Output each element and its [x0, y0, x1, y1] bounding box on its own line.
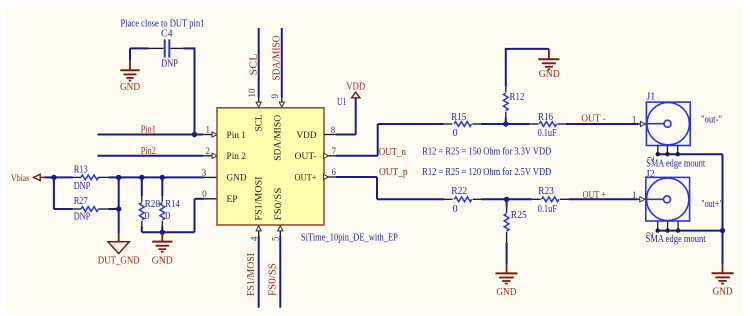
net label OUT +	[583, 190, 607, 201]
ground DUT_GND triangle symbol	[108, 242, 129, 254]
pin number 2 rotated (J2)	[645, 232, 655, 237]
pin name SDA/MISO rotated	[274, 115, 284, 161]
connector J1 ground pins	[656, 146, 680, 157]
label DNP (R13)	[74, 181, 91, 192]
wire Pin1 net horizontal	[98, 134, 204, 136]
capacitor C4 plates	[165, 39, 170, 57]
label DUT_GND	[98, 256, 140, 267]
label R28	[145, 199, 161, 210]
junction R12 bottom	[503, 121, 508, 126]
wire VDD net: pin8 to power port	[336, 98, 356, 135]
svg-text:SMA edge mount: SMA edge mount	[646, 159, 705, 170]
label GND bottom-right	[713, 287, 733, 298]
wire Vbias to junction	[44, 176, 54, 178]
svg-text:VDD: VDD	[297, 131, 317, 141]
svg-text:SMA edge mount: SMA edge mount	[646, 234, 706, 245]
wire R14 column	[161, 177, 163, 232]
pin number 10 rotated	[247, 88, 257, 97]
svg-text:R12: R12	[510, 92, 525, 103]
label Vbias	[11, 174, 30, 184]
wire R22 to R25 junction to R23	[473, 198, 541, 200]
junction R27 row x118	[116, 206, 121, 211]
wire R16 to J1	[557, 123, 638, 125]
svg-text:10: 10	[247, 88, 257, 97]
svg-text:R13: R13	[74, 165, 88, 176]
pin name Pin 1	[227, 131, 247, 141]
value 0.1uF (R23)	[538, 204, 558, 215]
label C4	[161, 29, 173, 40]
label R25	[511, 210, 527, 221]
svg-text:"out-": "out-"	[701, 115, 722, 126]
svg-text:OUT_n: OUT_n	[379, 147, 406, 158]
wire to bottom-right GND	[722, 231, 724, 274]
pin number 3	[202, 168, 207, 178]
net label OUT -	[581, 114, 606, 125]
resistor R16 body	[539, 122, 556, 127]
resistor R15 body	[454, 122, 471, 127]
value 0 (R28)	[145, 211, 150, 222]
wire bottom rail R28/R14 to EP	[142, 199, 204, 232]
label J2	[646, 169, 655, 180]
label R16	[538, 112, 553, 123]
ground GND left symbol	[152, 232, 172, 252]
svg-text:8: 8	[331, 125, 336, 135]
resistor R23 body	[542, 197, 559, 202]
svg-text:2: 2	[205, 146, 210, 156]
label out- quoted	[701, 115, 722, 126]
svg-text:EP: EP	[227, 195, 238, 205]
resistor R14 body	[160, 203, 165, 220]
pin 9 stub with arrow	[279, 98, 284, 108]
pin 1 stub J1	[639, 121, 646, 126]
svg-text:1: 1	[632, 190, 637, 200]
pin number 4 rotated	[249, 236, 259, 241]
svg-text:OUT -: OUT -	[581, 114, 606, 125]
resistor R13 body	[81, 175, 98, 180]
label SMA edge mount (J1)	[646, 159, 705, 170]
comment R12 = R25 = 150 Ohm for 3.3V VDD	[422, 147, 551, 158]
svg-text:5: 5	[270, 236, 280, 241]
svg-text:FS1/MOSI: FS1/MOSI	[246, 253, 257, 296]
pin 6 stub with arrow	[323, 174, 336, 179]
svg-text:0.1uF: 0.1uF	[538, 204, 558, 215]
svg-text:9: 9	[270, 94, 280, 99]
net label SCL rotated	[249, 54, 260, 76]
svg-text:R25: R25	[511, 210, 527, 221]
label R12	[510, 92, 525, 103]
svg-text:Pin2: Pin2	[141, 146, 156, 157]
ground GND top-right symbol	[538, 49, 559, 70]
ground GND top-left symbol	[120, 48, 139, 80]
junction J2 ground to vertical	[720, 228, 725, 233]
svg-text:R23: R23	[538, 186, 554, 197]
pin 8 stub	[324, 134, 336, 136]
svg-text:VDD: VDD	[346, 82, 365, 93]
svg-text:DUT_GND: DUT_GND	[98, 256, 140, 267]
wire SDA/MISO vertical	[281, 28, 283, 98]
svg-text:C4: C4	[161, 29, 173, 40]
pin number 1 (J2)	[632, 190, 637, 200]
svg-text:FS1/MOSI: FS1/MOSI	[254, 177, 264, 221]
svg-text:4: 4	[249, 236, 259, 241]
pin 2 stub with arrow	[203, 153, 217, 158]
wire OUT_p: pin6 right, down, to lower rail	[336, 177, 453, 199]
wire FS1/MOSI vertical	[258, 236, 260, 308]
power port VDD triangle	[352, 92, 360, 98]
net label Pin2	[141, 146, 156, 157]
svg-text:1: 1	[205, 125, 210, 135]
value 0 (R15)	[453, 128, 458, 139]
pin name OUT-	[295, 152, 317, 162]
label out+ quoted	[701, 199, 723, 210]
label R13	[74, 165, 88, 176]
wire J2 ground run	[658, 230, 723, 232]
svg-text:R15: R15	[451, 112, 466, 123]
pin number 2 rotated (J1)	[646, 156, 656, 161]
label VDD	[346, 82, 365, 93]
pin name EP	[227, 195, 238, 205]
svg-text:7: 7	[331, 146, 336, 156]
pin number 6	[331, 167, 336, 177]
svg-text:0: 0	[453, 204, 458, 215]
svg-text:SCL: SCL	[254, 114, 264, 131]
wire Pin2 net horizontal	[98, 155, 204, 157]
resistor R12 body	[503, 93, 508, 110]
wire R12 column and top run to GND	[505, 49, 549, 124]
resistor R27 body	[81, 207, 98, 212]
wire R13 row with leads	[54, 176, 204, 178]
connector J2 SMA body	[646, 177, 690, 221]
wire OUT_n: pin7 right, up, to upper rail	[336, 124, 452, 156]
svg-text:FS0/SS: FS0/SS	[274, 188, 284, 221]
connector J1 SMA body	[646, 102, 690, 145]
svg-text:3: 3	[202, 168, 207, 178]
label DNP (R27)	[74, 212, 91, 223]
net label FS1/MOSI rotated	[246, 253, 257, 296]
value 0 (R14)	[165, 211, 170, 222]
wire R25 column down to GND	[506, 199, 508, 273]
junction Pin1/C4	[192, 132, 197, 137]
svg-text:OUT_p: OUT_p	[379, 167, 408, 178]
svg-text:U1: U1	[337, 97, 347, 108]
value 0.1uF (R16)	[538, 128, 557, 139]
pin name FS1/MOSI rotated	[254, 177, 264, 221]
svg-text:R14: R14	[165, 199, 180, 210]
wire R23 to J2	[560, 198, 638, 200]
svg-text:DNP: DNP	[74, 212, 91, 223]
label R15	[451, 112, 466, 123]
junction R13 row x118	[116, 175, 121, 180]
svg-text:J2: J2	[646, 169, 655, 180]
pin name GND	[227, 173, 247, 183]
svg-text:R28: R28	[145, 199, 161, 210]
pin name SCL rotated	[254, 114, 264, 131]
svg-text:1: 1	[632, 115, 637, 125]
label R23	[538, 186, 554, 197]
label U1 designator	[337, 97, 347, 108]
pin 0 EP stub	[204, 198, 218, 200]
label GND below R25	[496, 287, 516, 298]
svg-text:Vbias: Vbias	[11, 174, 30, 184]
pin 3 stub	[204, 176, 218, 178]
label DNP (C4)	[161, 59, 178, 70]
svg-text:0: 0	[202, 189, 207, 199]
svg-text:OUT-: OUT-	[295, 152, 317, 162]
pin 1 stub J2	[638, 197, 645, 202]
power port Vbias arrow	[33, 174, 44, 180]
wire SCL vertical	[258, 28, 260, 98]
svg-text:SiTime_10pin_DE_with_EP: SiTime_10pin_DE_with_EP	[301, 233, 398, 244]
svg-text:6: 6	[331, 167, 336, 177]
label SMA edge mount (J2)	[646, 234, 706, 245]
comment R12 = R25 = 120 Ohm for 2.5V VDD	[422, 167, 551, 178]
pin number 1	[205, 125, 210, 135]
wire FS0/SS vertical	[279, 236, 281, 308]
svg-text:R16: R16	[538, 112, 553, 123]
svg-text:DNP: DNP	[74, 181, 91, 192]
svg-text:R27: R27	[74, 196, 88, 207]
svg-text:J1: J1	[646, 91, 655, 102]
pin number 9 rotated	[270, 94, 280, 99]
label GND left	[152, 256, 173, 267]
pin number 8	[331, 125, 336, 135]
svg-text:R12 = R25 = 150 Ohm for 3.3V V: R12 = R25 = 150 Ohm for 3.3V VDD	[422, 147, 551, 158]
svg-text:GND: GND	[152, 256, 173, 267]
ground GND bottom-right symbol	[712, 273, 734, 283]
net label OUT_n	[379, 147, 406, 158]
svg-text:GND: GND	[120, 82, 140, 93]
connector J2 ground pins	[656, 222, 681, 233]
svg-text:SDA/MISO: SDA/MISO	[271, 36, 282, 81]
svg-text:GND: GND	[713, 287, 733, 298]
svg-text:0: 0	[145, 211, 150, 222]
svg-text:R12 = R25 = 120 Ohm for 2.5V V: R12 = R25 = 120 Ohm for 2.5V VDD	[422, 167, 551, 178]
label J1	[646, 91, 655, 102]
comment Place close to DUT pin1	[121, 19, 205, 30]
label GND top-left	[120, 82, 140, 93]
svg-text:SDA/MISO: SDA/MISO	[274, 115, 284, 161]
junction R14 top	[160, 175, 165, 180]
junction R28 top	[139, 175, 144, 180]
op-amp U1 body: SiTime oscillator IC rectangle	[217, 108, 324, 225]
net label Pin1	[141, 125, 156, 136]
wire vertical junction column to DUT_GND	[118, 177, 120, 241]
wire R27 row with leads	[54, 208, 119, 210]
pin name VDD	[297, 131, 317, 141]
junction Vbias split	[51, 175, 56, 180]
resistor R22 body	[454, 197, 471, 202]
pin name FS0/SS rotated	[274, 188, 284, 221]
svg-text:0: 0	[453, 128, 458, 139]
wire vertical Vbias to R27 row	[53, 177, 55, 209]
pin number 2	[205, 146, 210, 156]
svg-text:DNP: DNP	[161, 59, 178, 70]
svg-text:Pin1: Pin1	[141, 125, 156, 136]
svg-text:GND: GND	[496, 287, 516, 298]
pin number 7	[331, 146, 336, 156]
pin name Pin 2	[227, 152, 247, 162]
pin 1 stub with arrow	[203, 132, 217, 137]
pin name OUT+	[295, 173, 317, 183]
label R27	[74, 196, 88, 207]
wire C4 net: cap leads and vertical down to Pin1	[130, 47, 195, 134]
net label SDA/MISO rotated	[271, 36, 282, 81]
value 0 (R22)	[453, 204, 458, 215]
wire J1 ground run	[658, 154, 723, 230]
svg-text:"out+": "out+"	[701, 199, 723, 210]
wire R15 to R12 junction to R16	[472, 123, 538, 125]
svg-text:Pin 1: Pin 1	[227, 131, 247, 141]
pin number 5 rotated	[270, 236, 280, 241]
label R14	[165, 199, 180, 210]
pin 10 stub with arrow	[256, 98, 261, 108]
svg-text:R22: R22	[451, 186, 467, 197]
resistor R25 body	[504, 214, 509, 231]
wire R28 column	[141, 177, 143, 232]
svg-text:0: 0	[165, 211, 170, 222]
pin 7 stub with arrow	[323, 153, 336, 158]
svg-text:OUT +: OUT +	[583, 190, 607, 201]
label GND top-right	[539, 69, 560, 80]
ground GND below R25	[495, 273, 517, 283]
svg-text:Pin 2: Pin 2	[227, 152, 247, 162]
junction GND tap bottom rail	[160, 230, 165, 235]
svg-text:SCL: SCL	[249, 54, 260, 76]
pin 4 stub with arrow	[256, 226, 261, 236]
pin number 0	[202, 189, 207, 199]
net label FS0/SS rotated	[267, 263, 278, 296]
svg-text:OUT+: OUT+	[295, 173, 317, 183]
pin 5 stub with arrow	[278, 226, 283, 236]
label SiTime_10pin_DE_with_EP	[301, 233, 398, 244]
svg-text:GND: GND	[539, 69, 560, 80]
net label OUT_p	[379, 167, 408, 178]
svg-text:0.1uF: 0.1uF	[538, 128, 557, 139]
junction R25 top	[504, 197, 509, 202]
label R22	[451, 186, 467, 197]
svg-text:GND: GND	[227, 173, 247, 183]
svg-text:Place close to DUT pin1: Place close to DUT pin1	[121, 19, 205, 30]
svg-text:FS0/SS: FS0/SS	[267, 263, 278, 296]
resistor R28 body	[139, 203, 144, 220]
pin number 1 (J1)	[632, 115, 637, 125]
